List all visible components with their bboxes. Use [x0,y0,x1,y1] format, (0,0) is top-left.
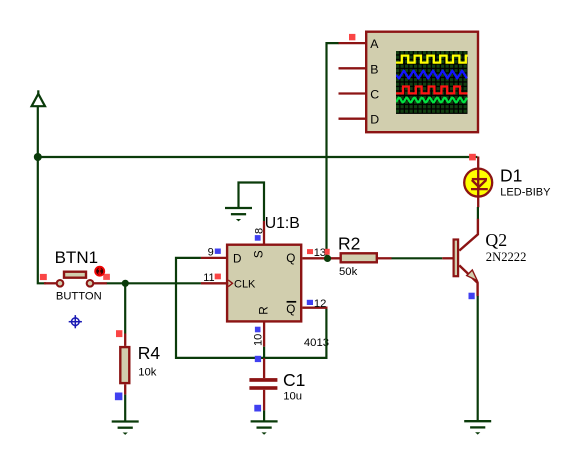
transistor Q2 base pin stub [442,257,453,259]
svg-text:11: 11 [203,272,214,284]
junction dot at BTN1/R4 node [122,280,129,287]
logic state blue square at pin 12 [307,300,313,305]
logic state blue square at feedback crossing [255,356,261,362]
svg-text:U1:B: U1:B [265,215,300,232]
oscilloscope body [366,32,478,133]
U1 clock triangle [228,280,232,287]
scope pin stub C [339,92,367,94]
svg-text:Q: Q [286,303,295,316]
logic state red square at R4 top [116,330,122,337]
svg-text:13: 13 [314,247,326,259]
logic state blue square at pin 8 [255,235,261,241]
logic state blue square at C1 bottom [254,405,261,412]
resistor R4 top lead [124,334,126,346]
wire: R2 to Q2 base [392,257,443,259]
svg-text:Q2: Q2 [485,230,507,250]
svg-text:Q: Q [286,252,295,265]
scope pin stub B [339,67,367,69]
button BTN1 right pin stub [94,282,108,284]
wire: S pin to ground [239,183,265,222]
svg-text:S: S [253,250,266,258]
svg-text:R4: R4 [138,343,161,363]
resistor R2 body [341,253,377,262]
scope pin stub D [339,118,367,120]
logic state red square at BTN1 left [40,274,47,280]
svg-text:9: 9 [208,247,214,259]
capacitor C1 top plate [249,378,277,382]
ground symbol at Q2 emitter [464,421,491,434]
wire: LED cathode to Q2 collector [477,207,479,219]
button BTN1 left terminal [57,280,64,287]
svg-text:BUTTON: BUTTON [56,290,102,302]
scope trace channel A yellow square wave [396,56,468,63]
capacitor C1 top lead [263,358,265,378]
svg-text:LED-BIBY: LED-BIBY [500,186,551,198]
svg-text:D: D [233,252,241,265]
button BTN1 actuator [95,267,104,276]
U1 pin D stub [201,257,226,259]
capacitor C1 bottom plate [249,386,277,390]
logic state red square at pin 11 [215,274,221,280]
svg-text:C: C [370,88,379,102]
svg-text:10: 10 [253,334,265,346]
scope pin stub A [339,42,367,44]
svg-text:10u: 10u [283,391,302,403]
svg-text:A: A [370,37,379,51]
U1 pin CLK stub [201,282,226,284]
scope trace channel C red square wave [396,87,468,94]
svg-text:2N2222: 2N2222 [486,250,527,264]
junction dot at power rail [34,153,42,161]
LED D1 bottom pin stub [477,197,479,208]
wire: BTN1 to CLK [107,282,201,284]
svg-text:8: 8 [254,228,266,234]
button BTN1 bar [64,272,86,278]
logic state red square at LED anode / top rail end [469,154,476,161]
svg-text:D: D [370,113,379,127]
transistor Q2 collector lead [459,219,478,251]
ground symbol at R4 [112,422,139,435]
logic state red square at BTN1 right [103,274,110,280]
U1 pin R stub [263,322,265,347]
resistor R2 right lead [378,257,392,259]
svg-text:C1: C1 [283,370,305,390]
ground symbol above U1 (S pin) [225,208,252,221]
power symbol VCC top-left [32,90,45,106]
svg-text:R: R [258,306,271,314]
resistor R4 bottom lead [124,384,126,394]
wire: scope channel A vertical from Q junction [327,43,339,258]
logic state blue square at R4 bottom [115,393,123,401]
transistor Q2 emitter lead [459,265,477,296]
logic state blue square at pin 10 [255,327,261,333]
U1 pin S stub [263,221,265,244]
LED D1 internal symbol [471,168,488,198]
IC U1:B body [227,245,301,322]
svg-text:R2: R2 [338,233,360,253]
origin crosshair marker [69,315,82,328]
svg-text:D1: D1 [500,165,522,185]
scope screen [396,51,468,114]
button BTN1 right terminal [87,280,94,287]
wire: left power rail vertical + corner to BTN1 [38,106,46,283]
logic state blue square at Q2 emitter [469,293,475,300]
LED D1 body circle [464,169,492,197]
ground symbol at C1 [251,421,278,434]
svg-text:BTN1: BTN1 [55,248,98,267]
capacitor C1 bottom lead [263,390,265,411]
wire: D feedback from Q-bar [176,258,326,358]
svg-text:50k: 50k [339,266,358,278]
junction dot at Q output node [324,255,331,262]
LED D1 top pin stub [477,157,479,169]
wire: junction down to R4 [124,283,126,333]
logic state red square at scope A [349,34,355,40]
logic state blue square at pin 9 [215,249,221,254]
wire: C1 to ground [263,410,265,421]
scope trace channel D green sine wave [396,98,467,102]
transistor Q2 base bar [454,240,459,277]
svg-text:10k: 10k [138,367,157,379]
svg-text:4013: 4013 [304,337,329,349]
wire: R pin down to feedback crossing [263,347,265,359]
transistor Q2 emitter arrow [467,270,478,281]
logic state red square at Q junction [325,249,330,255]
button BTN1 left pin stub [44,282,57,284]
wire: Q2 emitter to ground [477,296,479,421]
logic state red square left of pin 13 [307,249,313,254]
svg-text:12: 12 [314,298,326,310]
resistor R2 left lead with pin13 stub [302,257,339,259]
resistor R4 body [120,347,129,383]
scope trace channel B blue triangle wave [396,71,467,79]
svg-text:B: B [370,62,378,76]
svg-text:CLK: CLK [234,279,256,291]
wire: long top horizontal rail to LED [38,156,478,158]
U1 pin Q-bar stub [302,307,327,309]
wire: R4 to ground [124,395,126,422]
